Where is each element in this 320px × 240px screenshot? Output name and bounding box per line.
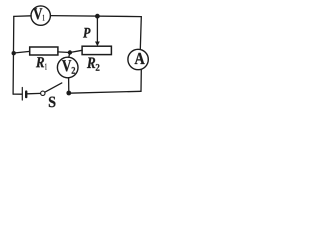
label V2 (62, 60, 75, 73)
slider arrow shaft (96, 16, 98, 42)
node R1-R2 junction (68, 50, 72, 54)
label A (135, 53, 145, 64)
wire right side lower (140, 70, 142, 92)
battery short thick plate (25, 92, 27, 98)
wire left side (12, 16, 15, 94)
wire junction to R1 (14, 51, 30, 53)
wire R1 to junction (58, 51, 70, 54)
resistor R1 body (30, 47, 58, 55)
label S (49, 97, 56, 108)
slider arrow head (95, 42, 100, 47)
wire battery to switch (27, 92, 40, 94)
wire bottom-left corner to battery (13, 93, 22, 95)
wire top-left segment (14, 15, 31, 18)
wire right side upper (140, 17, 141, 50)
wire V2 bottom stub (68, 78, 70, 93)
switch pivot circle (41, 91, 45, 95)
label R1 (36, 57, 47, 69)
wire junction to R2 (70, 50, 82, 52)
wire V2 top stub (69, 53, 70, 58)
label R2 (87, 57, 100, 70)
switch lever (45, 83, 62, 92)
resistor R2 rheostat body (82, 46, 111, 54)
node left rail junction (12, 51, 16, 55)
voltmeter V2 circle (57, 57, 78, 78)
node bottom wire junction (66, 91, 71, 96)
label V1 (33, 8, 44, 20)
battery long plate (21, 88, 23, 101)
ammeter A circle (128, 49, 148, 69)
voltmeter V1 circle (31, 6, 50, 25)
label P (83, 28, 91, 38)
wire top-right segment (51, 16, 142, 17)
node slider tap junction (95, 14, 100, 19)
wire bottom right run (69, 91, 141, 93)
